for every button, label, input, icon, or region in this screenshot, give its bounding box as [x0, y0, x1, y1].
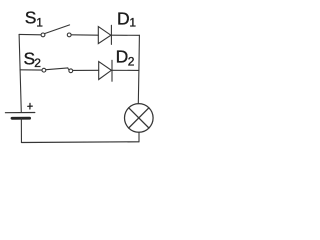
wire: left rail (S1 corner down to battery) [19, 34, 21, 112]
lamp [125, 104, 154, 133]
diode D2 [99, 60, 112, 81]
wire: left rail to switch S2 [20, 69, 42, 71]
svg-text:D: D [116, 47, 129, 67]
wire: left rail top corner to switch S1 [19, 33, 41, 35]
switch S1 [41, 25, 71, 37]
label D1 [117, 8, 136, 29]
svg-text:1: 1 [36, 16, 43, 30]
wire: battery to bottom-left corner [20, 118, 22, 142]
diode D1 [98, 25, 111, 44]
wire: D2 to right rail junction [112, 69, 139, 71]
battery plus sign [28, 103, 33, 109]
wire: bottom rail to lamp [138, 132, 140, 142]
svg-text:2: 2 [128, 54, 135, 68]
label S1 [25, 8, 44, 30]
svg-text:D: D [117, 8, 130, 28]
wire: right rail (top corner down to lamp) [138, 35, 139, 103]
wire: bottom rail [21, 141, 139, 144]
svg-text:2: 2 [34, 56, 41, 70]
wire: S2 to D2 [73, 69, 99, 71]
wire: D1 to right rail corner [111, 34, 139, 36]
wire: S1 to D1 [71, 34, 98, 36]
svg-text:1: 1 [129, 16, 136, 30]
switch S2 [42, 68, 73, 73]
svg-text:S: S [25, 8, 37, 28]
label D2 [116, 47, 135, 69]
battery [5, 113, 34, 119]
label S2 [24, 48, 42, 69]
